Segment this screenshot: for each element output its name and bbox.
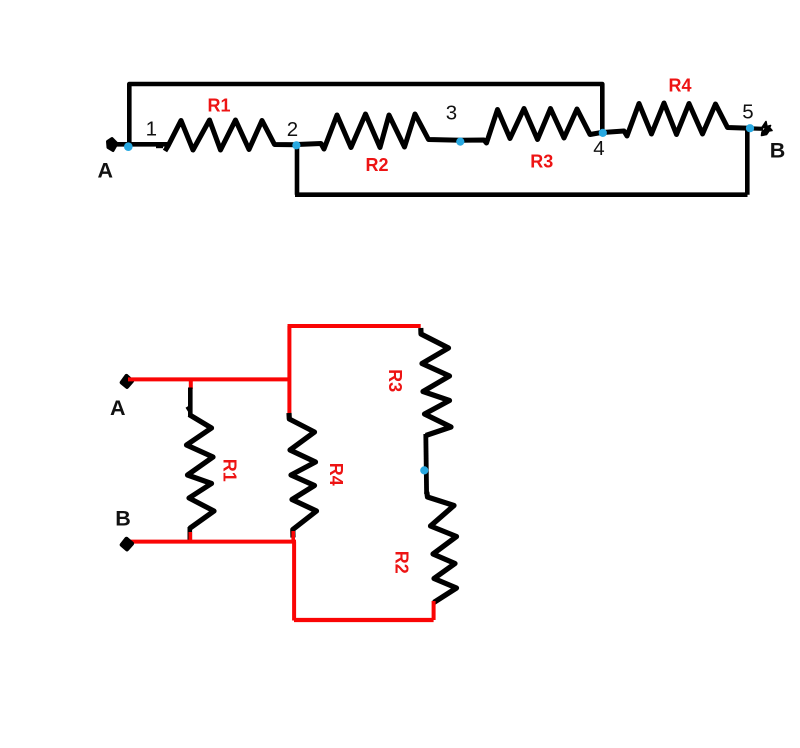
- svg-text:A: A: [98, 158, 114, 182]
- wire terminal A to R1: [111, 142, 168, 147]
- node 5 dot: [746, 124, 754, 132]
- resistor R2: [297, 114, 461, 149]
- svg-text:B: B: [770, 138, 786, 162]
- svg-text:4: 4: [593, 137, 604, 160]
- wire top rail (red): [288, 324, 421, 328]
- svg-text:5: 5: [742, 101, 753, 124]
- svg-text:R4: R4: [326, 463, 346, 486]
- svg-text:R1: R1: [220, 459, 240, 482]
- node 4 dot: [599, 129, 607, 137]
- wire R2 to bottom rail (red): [432, 601, 436, 620]
- wire link R3 to R2: [423, 434, 429, 494]
- resistor R3: [460, 109, 603, 144]
- wire node 2 to bottom rail: [295, 145, 300, 195]
- svg-text:B: B: [115, 506, 131, 530]
- wire B junction to bottom rail (red): [292, 542, 296, 621]
- resistor R4 (bottom circuit): [289, 413, 317, 538]
- wire R4 bottom connection (red tick): [291, 531, 295, 542]
- terminal B (top circuit): [762, 122, 773, 136]
- wire R1 top connection: [189, 380, 193, 390]
- wire bottom rail (red): [294, 618, 434, 622]
- wire top loop node 1 to node 4: [129, 84, 602, 146]
- wire terminal B to junction (red): [129, 540, 296, 544]
- resistor R1 (bottom circuit): [187, 415, 215, 529]
- resistor R2 (bottom circuit): [427, 492, 457, 603]
- svg-text:2: 2: [287, 118, 298, 141]
- svg-text:R2: R2: [365, 155, 388, 175]
- wire node 5 to bottom rail: [745, 130, 750, 195]
- node junction R3-R2 dot: [420, 466, 428, 474]
- wire bottom rail node 2 to node 5: [295, 192, 748, 197]
- svg-text:A: A: [110, 396, 126, 420]
- node 2 dot: [292, 141, 300, 149]
- wire R1 bottom connection: [188, 527, 193, 541]
- svg-text:R2: R2: [391, 551, 411, 574]
- svg-text:R3: R3: [530, 152, 553, 172]
- svg-text:1: 1: [146, 117, 157, 140]
- svg-text:R4: R4: [668, 76, 691, 96]
- wire top rail to R4 (red vertical): [287, 326, 291, 414]
- node A junction dot: [124, 142, 133, 151]
- wire node 5 to terminal B: [750, 126, 763, 131]
- wire terminal A to junction (red): [128, 377, 291, 381]
- svg-text:3: 3: [446, 102, 457, 125]
- wire stub under node 1: [156, 145, 163, 148]
- svg-text:R1: R1: [207, 96, 230, 116]
- terminal B (bottom circuit): [122, 539, 132, 550]
- terminal A (bottom circuit): [122, 376, 132, 387]
- node 3 dot: [456, 138, 464, 146]
- resistor R3 (bottom circuit): [421, 328, 451, 436]
- resistor R1: [165, 120, 297, 151]
- terminal A: [108, 139, 118, 151]
- resistor R4: [603, 103, 751, 136]
- svg-text:R3: R3: [385, 369, 405, 392]
